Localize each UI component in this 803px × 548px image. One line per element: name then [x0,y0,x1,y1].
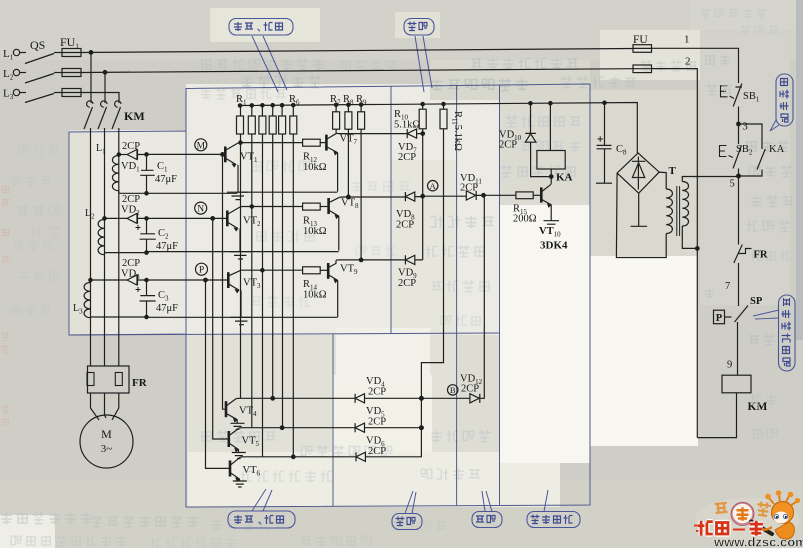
text: huo-men (top) [408,22,417,32]
node A circle [428,181,438,191]
wire bridge minus to common bar [638,193,640,226]
relay coil KA [537,151,565,170]
wire L3 to KM pole 3 [81,93,119,104]
svg-text:2CP: 2CP [499,140,517,151]
junction C2 bottom [145,251,148,254]
ground (VT10 emitter) [544,221,560,225]
switch QS pole 1 [25,54,54,64]
node P circle [196,263,208,275]
svg-text:47μF: 47μF [156,303,178,314]
diode VD9 2CP (cathode left) [405,255,422,264]
svg-text:47μF: 47μF [156,241,178,252]
wire KA coil to VT10 collector [550,169,552,184]
fuse FU1 pole 1 [62,49,81,57]
transistor VT10 3DK4 [540,187,543,202]
wire QS to FU1 pole 3 [54,92,62,94]
svg-text:2CP: 2CP [368,446,386,457]
wire R2 bus down to VT5 collector line [251,134,253,428]
svg-text:KA: KA [556,172,573,184]
wire VT1 collector to R12 [238,142,303,144]
wire R5 bus down to VD5 line [282,134,284,428]
wire node A line to VD11 [423,195,467,197]
junction T primary / line2 [696,247,700,251]
svg-text:2CP: 2CP [398,152,416,163]
horizontal divider under upper section [69,333,499,335]
junction L1 tap [89,51,93,55]
resistor R4 [272,105,274,116]
wire VT9 collector line to VD9 [336,259,405,261]
svg-text:N: N [197,205,204,215]
wire R6 bus down to VD6 line [292,134,294,457]
resistor R15 200ohm [516,192,533,199]
pushbutton SB2 (NO start) [733,124,742,169]
text: yu-men (bottom) [476,516,484,522]
junction rail-KA [549,102,552,105]
svg-text:10kΩ: 10kΩ [303,226,327,237]
text: lian-suo chu-dian (rotated right) [780,79,790,123]
logo wei-ku-yi-xia red text [698,521,763,536]
pressure switch SP contact [735,306,749,323]
svg-text:KA: KA [769,144,785,155]
callout: amplify/invert (top) [229,19,293,36]
svg-text:10kΩ: 10kΩ [303,290,327,301]
junction N line to VT5 base feed [211,217,215,221]
contact FR (NC thermal) [734,245,752,264]
callout: interlock contact (right, rotated) [776,74,793,126]
divider lower amplify | OR column [332,334,334,506]
thermal relay FR heater box [88,366,130,393]
pushbutton SB1 (NC stop) [733,84,742,107]
transistor VT9 [327,263,330,279]
fuse FU (line 1) [633,45,652,53]
fuse FU1 pole 3 [62,89,81,97]
wire VD2 cathode to node N line [146,217,226,219]
wire VT6 collector line to VD6 [240,456,355,458]
wire P box to SP blade [725,316,732,318]
svg-text:2CP: 2CP [368,417,386,428]
svg-text:KM: KM [124,109,145,123]
resistor R8 [347,105,349,112]
wire QS to FU1 pole 1 [54,52,62,54]
svg-text:3~: 3~ [101,443,113,455]
callout: amplify/invert (bottom) [228,511,295,528]
callout: OR gate (top) [404,19,434,36]
junction R1/VT1 collector [239,141,242,144]
callout: OR gate (bottom) [392,514,422,530]
SB2 actuator E [720,146,734,158]
inductor L1 (on phase C) [112,156,118,191]
svg-text:FR: FR [132,377,148,389]
callout: output circuit (bottom) [527,512,580,528]
svg-text:5.1kΩ: 5.1kΩ [394,120,420,131]
wire VT7 collector line to VD7 [337,132,407,134]
switch QS pole 3 [25,94,54,103]
junction rail-R7 [334,103,337,106]
wire filter group2 return to VT2 emitter ground [105,252,339,255]
junction VD5 / OR bus [420,426,424,430]
wire FU to control chain corner [652,48,739,83]
junction rail-VD10 [529,102,532,105]
junction R4/VD4 line [271,397,275,401]
svg-text:2CP: 2CP [460,183,478,194]
svg-text:1: 1 [684,34,690,46]
junction VD3 cathode / C3 top [145,278,148,281]
svg-text:7: 7 [725,281,730,292]
svg-text:47μF: 47μF [155,174,177,185]
junction node 3 [737,122,741,126]
node N circle [195,202,207,214]
inductor L2 (on phase B) [98,220,104,255]
wire VD1 anode [119,154,127,156]
junction R10 bottom [421,132,425,136]
resistor R5 [281,105,283,116]
fuse FU (line 2) [633,65,652,73]
wire R7 to VT7 collector [335,129,337,133]
svg-text:T: T [669,165,677,177]
wire phase C down to thermal element [118,128,120,366]
switch QS pole 2 [25,74,54,84]
wire: L1 phase rail to control fuse FU [81,49,633,53]
resistor R13 10k [303,203,321,210]
transistor VT7 [325,135,328,151]
transistor VT6 [229,461,232,477]
wire branch node3 to KA contact [739,124,763,149]
ground (VT6 emitter) [233,481,247,487]
diode VD11 2CP (anode left) [466,191,483,200]
junction R9 bus / VT9 collector [359,258,363,262]
svg-text:10kΩ: 10kΩ [303,162,327,173]
junction R2/VT2 collector [250,205,253,208]
SB1 actuator E [721,86,735,99]
resistor R1 [240,106,242,117]
resistor R3 [261,105,263,116]
svg-text:B: B [450,385,456,395]
wire QS to FU1 pole 2 [54,72,62,74]
diode VD4 2CP (cathode left) [355,394,421,403]
bridge rectifier (diamond) [617,153,659,193]
wire VT2 collector to R13 [240,206,303,209]
text: ya-li kong-zhi chu-dian (rotated right) [782,298,792,366]
motor M 3~ [80,415,133,468]
logo mascot head [772,502,794,524]
fuse FU1 pole 2 [62,69,81,77]
junction rail-R9 [359,103,362,106]
junction VD2 cathode / C2 top [145,217,148,220]
bridge common bar [631,225,648,227]
svg-text:3DK4: 3DK4 [540,240,568,252]
resistor R11 5.1k [443,104,445,109]
wire T primary top to node 5 [682,177,739,182]
inductor L3 (on phase A) [84,283,90,318]
wire phase B down to thermal element [104,128,106,366]
diode VD3 2CP [127,275,146,285]
svg-text:P: P [199,266,204,276]
junction VD1 cathode / C1 top [145,153,148,156]
logo mascot eyes [774,514,778,518]
wire VT4 collector line to VD4 [236,397,354,399]
callout pseudo-hanzi texts [234,22,791,527]
wire T primary bottom to line 2 [682,226,697,248]
wire bridge AC loop left [616,173,666,257]
logo speed dashes [694,526,705,532]
logo halo [695,498,799,542]
logo mascot body [775,522,794,539]
contactor KM main contact 2 [101,101,107,107]
callout: AND gate (bottom) [472,512,502,528]
FR heater element 3 [115,373,122,386]
divider between upper amplify and OR-gate columns [390,86,392,334]
junction A-line / AND bus [421,194,425,198]
junction rail-R6 [292,103,295,106]
svg-text:M: M [101,427,112,441]
capacitor C1 47uF [140,154,155,193]
svg-text:2CP: 2CP [122,258,140,269]
wire L1 terminal to QS [20,52,26,54]
lighter zones behind schematic [186,84,590,335]
svg-text:FR: FR [754,250,768,261]
diode VD6 2CP (cathode left) [356,452,421,461]
wire L3 terminal to QS [20,92,26,94]
capacitor C3 47uF (+) [140,280,156,317]
resistor R9 [360,105,362,112]
wire R10 to VD7/AND bus [422,129,424,260]
svg-text:2CP: 2CP [122,194,140,205]
ground (VT4 emitter) [231,423,245,429]
transistor VT8 [327,198,330,214]
junction L1-top / VD1 anode [117,153,120,156]
svg-text:2CP: 2CP [396,220,414,231]
wire M feed down to VT4 base [223,154,226,409]
junction rail-R2 [250,104,253,107]
contact KA (NO, parallel with SB2) [757,149,765,170]
junction VD10 / KA / VT10 collector [549,175,553,179]
junction M line to VT4 base feed [221,153,225,157]
junction R6/VD6 line [292,455,296,459]
wire rail to VD10 [530,103,532,133]
wire node5 down to FR contact [738,176,740,245]
wire KM coil to bottom return [697,393,736,438]
diode VD10 2CP (flyback, cathode up) [525,133,551,176]
transistor VT5 [228,431,231,447]
wire SB1 to node 3 [738,107,740,125]
svg-text:M: M [197,141,206,151]
terminal L1 [13,49,19,55]
wire FR to motor 3 [112,393,119,420]
divider OR | AND column [456,86,458,507]
junction P line to VT6 base feed [204,278,208,282]
amplifier outer box (covers amplify/invert, OR, AND, output sections) [186,84,590,507]
transformer T primary winding [682,182,688,226]
wire L1 tap down to KM pole 1 [90,52,92,103]
junction L3-top / VD3 anode [89,278,92,281]
diode VD12 2CP (anode left) [470,196,484,403]
logo magnifier handle [751,522,772,535]
text: huo-men (bottom) [396,517,405,527]
wire fuse2 to line-2 drop [652,69,698,438]
wire node B line through VD12 [421,397,470,399]
svg-text:3: 3 [743,122,748,133]
terminal L2 [13,69,19,75]
wire L2 terminal to QS [20,72,26,74]
junction rail-R3 [261,104,264,107]
wire R15 to VT10 base [533,194,540,196]
wire VT3 collector to R14 [241,269,303,271]
wire bridge AC right to T secondary [659,172,666,189]
wire KA contact to node 5 [739,170,763,177]
text: fang-da dao-xiang (bottom) [234,515,242,524]
wire VD3 anode [91,279,128,281]
junction C1 bottom [145,192,148,195]
wire: L2 phase rail to control fuse 2 [81,69,633,73]
C8 polarity + [598,136,604,142]
svg-text:2CP: 2CP [368,387,386,398]
resistor R14 10k [303,267,321,274]
contactor coil KM [722,375,751,393]
resistor R6 [292,105,294,116]
logo mascot antennae [769,495,796,506]
wire filter group3 return to VT3 emitter ground [91,316,338,319]
ground (VT5 emitter) [232,453,246,459]
wire: +V top rail [240,103,637,154]
svg-text:2CP: 2CP [398,278,416,289]
bridge internal diode [632,157,645,190]
wire L2 tap down to KM pole 2 [104,72,106,103]
logo mascot arm [762,527,772,530]
svg-text:P: P [716,313,723,324]
svg-text:www.dzsc.com: www.dzsc.com [713,535,803,548]
pressure sensor box P [714,310,725,324]
junction rail-R8 [347,103,350,106]
wire R3 bus down to VT6 collector line [262,134,264,457]
wire R11 down to OR bus jog [421,129,443,455]
wire VD2 anode [105,217,128,219]
wire FR to motor 2 [105,393,107,418]
resistor R7 [335,105,337,112]
svg-text:9: 9 [727,360,732,371]
wire VT8 collector line to VD8 (node A line) [339,196,405,198]
contactor KM main contact 3 [115,101,121,107]
divider AND | output column [499,85,501,506]
callout: pressure control contact (right, rotated) [779,295,796,371]
junction L2 tap [103,71,107,75]
junction node 5 [737,174,741,178]
capacitor C8 [597,103,612,183]
terminal L3 [13,89,19,95]
svg-text:A: A [430,181,437,191]
svg-text:5: 5 [730,179,735,190]
wire R8 bus down [347,129,349,197]
diode VD8 2CP (cathode left) [405,192,422,201]
transistor VT1 [224,147,227,163]
wire R13 to VT8 base [320,206,327,208]
ground (VT1 emitter) [227,192,248,199]
wire SP to KM coil [737,322,739,375]
contactor KM main contact 1 [87,101,93,107]
ground (VT2 emitter) [230,252,251,259]
svg-text:R115.1kΩ: R115.1kΩ [451,111,464,151]
wire phase A down to thermal element [90,128,92,366]
junction R8 bus / VT8 collector [347,195,351,199]
diode VD1 2CP [127,150,146,160]
junction rail-R10 [421,102,424,105]
junction VD4 / OR bus [420,396,424,400]
diode VD2 2CP [127,213,146,223]
wire N feed down to VT5 base [213,218,228,439]
transformer T secondary winding [666,189,672,233]
wire VD3 cathode to node P line [146,279,227,281]
wire FR to SP contact [738,263,740,306]
wire AND junction to R15 [484,194,516,196]
wire rail to KA coil [549,103,551,150]
svg-text:2CP: 2CP [461,384,479,395]
svg-text:QS: QS [30,38,45,52]
C8 negative bus bar [596,182,612,184]
wire SB2 to node 5 [738,169,740,177]
logo mascot face [774,512,789,524]
FR heater element 1 [87,373,94,386]
wire R14 to VT9 base [320,269,327,271]
transistor VT3 [227,272,230,288]
resistor R12 10k [303,139,321,146]
svg-text:2: 2 [685,56,691,68]
junction rail-R1 [238,104,241,107]
svg-text:FU: FU [633,34,648,46]
ground (VT3 emitter) [231,317,252,324]
resistor R2 [251,105,253,116]
wire R4 bus down to VD4 line [272,134,274,398]
page right edge shadow [796,0,803,340]
junction rail-R5 [280,104,283,107]
wire R12 to VT7 base [320,142,325,144]
logo magnifier [732,503,754,525]
node M circle [195,139,207,151]
diode VD7 2CP (cathode left) [407,129,423,138]
junction L2-top / VD2 anode [103,217,106,220]
wire R9 bus down [360,129,362,260]
junction R3/VT3 collector [261,269,264,272]
junction C3 bottom [145,315,148,318]
label R11 5.1k (rotated) [451,111,464,151]
transistor VT2 [226,211,229,227]
junction rail-C8 [603,101,606,104]
resistor R10 5.1k [422,104,424,109]
junction AND gate output [482,194,486,198]
wire FR to motor 1 [91,393,100,420]
junction rail-R11 [442,102,445,105]
wire VT5 collector line to VD5 [239,427,355,429]
svg-text:SP: SP [750,296,763,307]
wire P feed down to VT6 base [206,280,230,468]
logo zhao-xin-pian orange text [715,501,771,517]
wire VD1 cathode to node M line [146,153,222,155]
wire R1 bus down to VT4 collector line [240,134,242,398]
text: shu-chu dian-lu (bottom) [531,515,540,525]
node B circle [448,385,458,395]
transistor VT4 [225,401,228,417]
capacitor C2 47uF (+) [140,218,156,252]
svg-text:2CP: 2CP [122,141,140,152]
transformer T core [677,186,680,236]
wire filter group1 return to VT1 emitter ground [119,191,338,193]
svg-text:200Ω: 200Ω [513,214,537,225]
filter section box (L1-L3, VD1-3, C1-3) [69,131,186,335]
junction R5/VD5 line [280,426,284,430]
text: fang-da dao-xiang (top) [234,22,242,31]
diode VD5 2CP (cathode left) [355,423,421,432]
junction rail-R4 [271,104,274,107]
